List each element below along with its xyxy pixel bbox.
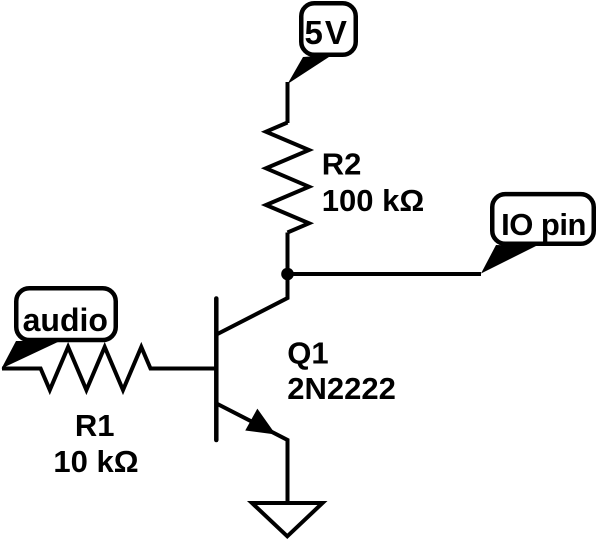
svg-text:100 kΩ: 100 kΩ — [322, 183, 424, 218]
svg-text:10 kΩ: 10 kΩ — [53, 444, 138, 479]
svg-text:Q1: Q1 — [287, 336, 328, 371]
svg-text:audio: audio — [23, 302, 108, 338]
svg-text:R2: R2 — [322, 147, 362, 182]
svg-text:2N2222: 2N2222 — [287, 371, 396, 406]
svg-text:R1: R1 — [75, 408, 115, 443]
svg-text:5V: 5V — [305, 14, 349, 51]
svg-text:IO pin: IO pin — [501, 207, 586, 242]
